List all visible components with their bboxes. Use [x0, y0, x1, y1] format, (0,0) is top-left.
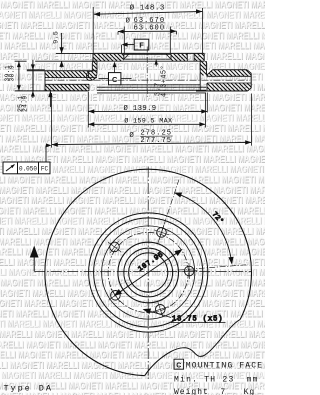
svg-text:Min. TH 23 mm: Min. TH 23 mm — [174, 375, 259, 384]
vent channel centerline — [46, 79, 251, 81]
svg-text:FC: FC — [41, 166, 49, 173]
svg-text:C: C — [176, 362, 181, 369]
hole diameter callout 13.75 (x5) — [145, 310, 171, 318]
section: hat right wall — [200, 61, 206, 75]
axis centerline — [146, 47, 148, 98]
section view direction arrow — [30, 246, 39, 258]
section: mounting flange — [93, 52, 204, 54]
note: C MOUNTING FACE — [174, 359, 184, 369]
dimension 72 deg arc — [176, 193, 232, 263]
svg-text:Ø: Ø — [126, 17, 131, 26]
front view: hub circles — [129, 253, 168, 292]
svg-text:MOUNTING FACE: MOUNTING FACE — [186, 361, 263, 370]
bolt holes (5x) — [157, 228, 167, 238]
svg-text:C: C — [112, 75, 118, 84]
radial dash lines for 72 deg dimension — [158, 180, 179, 245]
front view: break-out curve around table — [145, 319, 241, 375]
datum F box — [134, 39, 149, 50]
hub bore (far wall lines + chamfers) — [124, 53, 171, 55]
section: hat left wall and fillet — [87, 61, 98, 80]
front view: disc outer circle — [45, 169, 252, 376]
svg-text:24.9: 24.9 — [22, 95, 29, 112]
bolt circle (dash-dot) — [108, 232, 188, 312]
svg-text:0.050: 0.050 — [19, 166, 37, 173]
centerline horizontal — [34, 270, 251, 272]
section: left friction ring — [15, 90, 89, 92]
svg-text:9.5: 9.5 — [52, 31, 59, 44]
dimension 107.95 (bolt circle) — [115, 250, 181, 295]
svg-text:Ø 148.3: Ø 148.3 — [130, 3, 165, 12]
centerline vertical — [147, 167, 149, 382]
svg-text:Type DA: Type DA — [4, 384, 53, 394]
svg-text:F: F — [139, 40, 144, 49]
chamfer dimension 4.3/3.7 +45&#176; — [155, 60, 157, 67]
section: hat interior edges — [120, 84, 200, 86]
stud hole in flange — [186, 53, 188, 61]
section: right friction ring — [213, 69, 248, 71]
runout tolerance frame 0.050 FC — [3, 162, 50, 174]
datum C box — [109, 73, 121, 85]
svg-text:Ø: Ø — [129, 131, 134, 140]
svg-text:38.9: 38.9 — [9, 65, 16, 82]
svg-text:3.7: 3.7 — [155, 82, 163, 96]
svg-text:Weight 7 Kg: Weight 7 Kg — [174, 388, 255, 395]
